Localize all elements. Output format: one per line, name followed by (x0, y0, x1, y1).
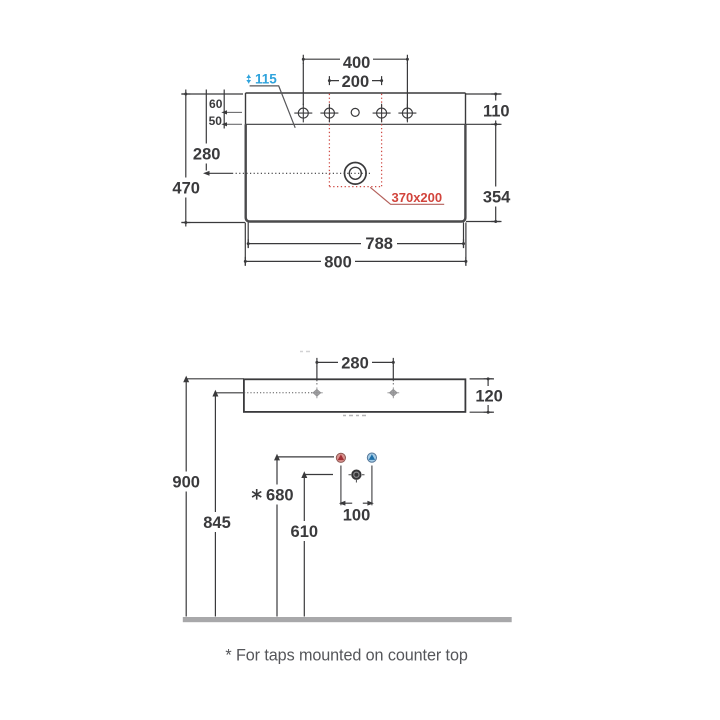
watermark marks above front view (300, 351, 310, 353)
basin right edge upper (465, 93, 467, 124)
basin left edge upper (245, 93, 247, 124)
svg-text:470: 470 (172, 180, 200, 198)
label 115 leader (250, 86, 296, 128)
basin rim line (246, 123, 466, 125)
drain centerline dotted (232, 172, 370, 174)
cutout label 370x200 leader (370, 187, 444, 204)
front tap marker left (311, 387, 323, 398)
dim 680 asterisk (252, 489, 261, 500)
red dashed cutout bottom (329, 186, 381, 188)
dim 845 arrow (212, 390, 218, 397)
front view outline (244, 379, 466, 412)
dim 200 line (329, 76, 381, 85)
tap stem left (340, 466, 342, 506)
label 115 (246, 72, 277, 87)
drain centerline solid segment (206, 172, 232, 174)
svg-text:680: 680 (266, 486, 294, 504)
dim 900 line (186, 379, 244, 617)
dim 110-354 line (466, 94, 502, 222)
tap hole 1 (294, 104, 312, 123)
dim 60-50 arrows (221, 110, 227, 126)
dim 788 label (361, 235, 397, 253)
dim 680 line (277, 457, 334, 617)
dim 800 label (321, 254, 355, 272)
front tap marker right (387, 387, 399, 398)
cold tap symbol (367, 453, 376, 462)
tap stem right (371, 466, 373, 506)
svg-text:120: 120 (475, 388, 503, 406)
svg-text:788: 788 (365, 235, 393, 253)
bowl thick outline (246, 124, 466, 221)
svg-text:280: 280 (341, 355, 369, 373)
dim 280 line (205, 90, 207, 171)
dim 280 front line (317, 358, 393, 386)
tap hole 4 (398, 104, 416, 123)
dim 100 arrows (339, 501, 346, 506)
svg-text:370x200: 370x200 (392, 190, 443, 205)
svg-text:900: 900 (172, 473, 200, 491)
svg-text:845: 845 (203, 514, 231, 532)
dim 845 line (214, 395, 216, 617)
svg-text:280: 280 (193, 145, 221, 163)
svg-text:100: 100 (343, 506, 371, 524)
dimension end dots (184, 58, 497, 414)
dim 680 arrow (274, 454, 280, 461)
dim 100 stubs (345, 502, 370, 504)
dim 788 line (248, 223, 463, 249)
dim 280 front label (338, 355, 372, 373)
dim 120 line (470, 379, 494, 412)
svg-text:610: 610 (291, 523, 319, 541)
middle hole (351, 108, 359, 116)
tap hole 2 (320, 104, 338, 123)
dim 800 line (245, 223, 466, 266)
svg-text:115: 115 (255, 72, 277, 87)
drain outer circle (345, 163, 367, 185)
dim 60-50 line (224, 90, 242, 129)
svg-text:200: 200 (342, 73, 370, 91)
drain outlet symbol (349, 470, 365, 483)
dim 400 label (340, 53, 373, 72)
svg-text:* For taps mounted on counter: * For taps mounted on counter top (225, 647, 467, 665)
dim 470 line (181, 90, 245, 227)
svg-text:110: 110 (483, 102, 510, 120)
svg-text:50: 50 (209, 114, 223, 128)
front centerline dotted (244, 392, 312, 394)
floor bar (183, 617, 512, 622)
dim 610 line (304, 475, 333, 617)
dim 900 arrow (183, 376, 189, 383)
front centerline solid (216, 392, 244, 394)
tap hole 3 (373, 104, 391, 123)
dim 400 line (303, 55, 407, 121)
dim 280 arrow (203, 171, 210, 176)
svg-text:400: 400 (343, 54, 371, 72)
svg-text:800: 800 (324, 254, 352, 272)
dim 610 arrow (301, 471, 307, 478)
svg-text:354: 354 (483, 188, 511, 206)
red dashed cutout right (381, 94, 383, 187)
watermark marks below front view (343, 415, 366, 417)
hot tap symbol (336, 453, 345, 462)
drain inner circle (349, 167, 361, 179)
basin top edge (246, 92, 466, 94)
dim 200 label (339, 73, 372, 91)
red dashed cutout left (328, 94, 330, 187)
svg-text:60: 60 (209, 97, 223, 111)
